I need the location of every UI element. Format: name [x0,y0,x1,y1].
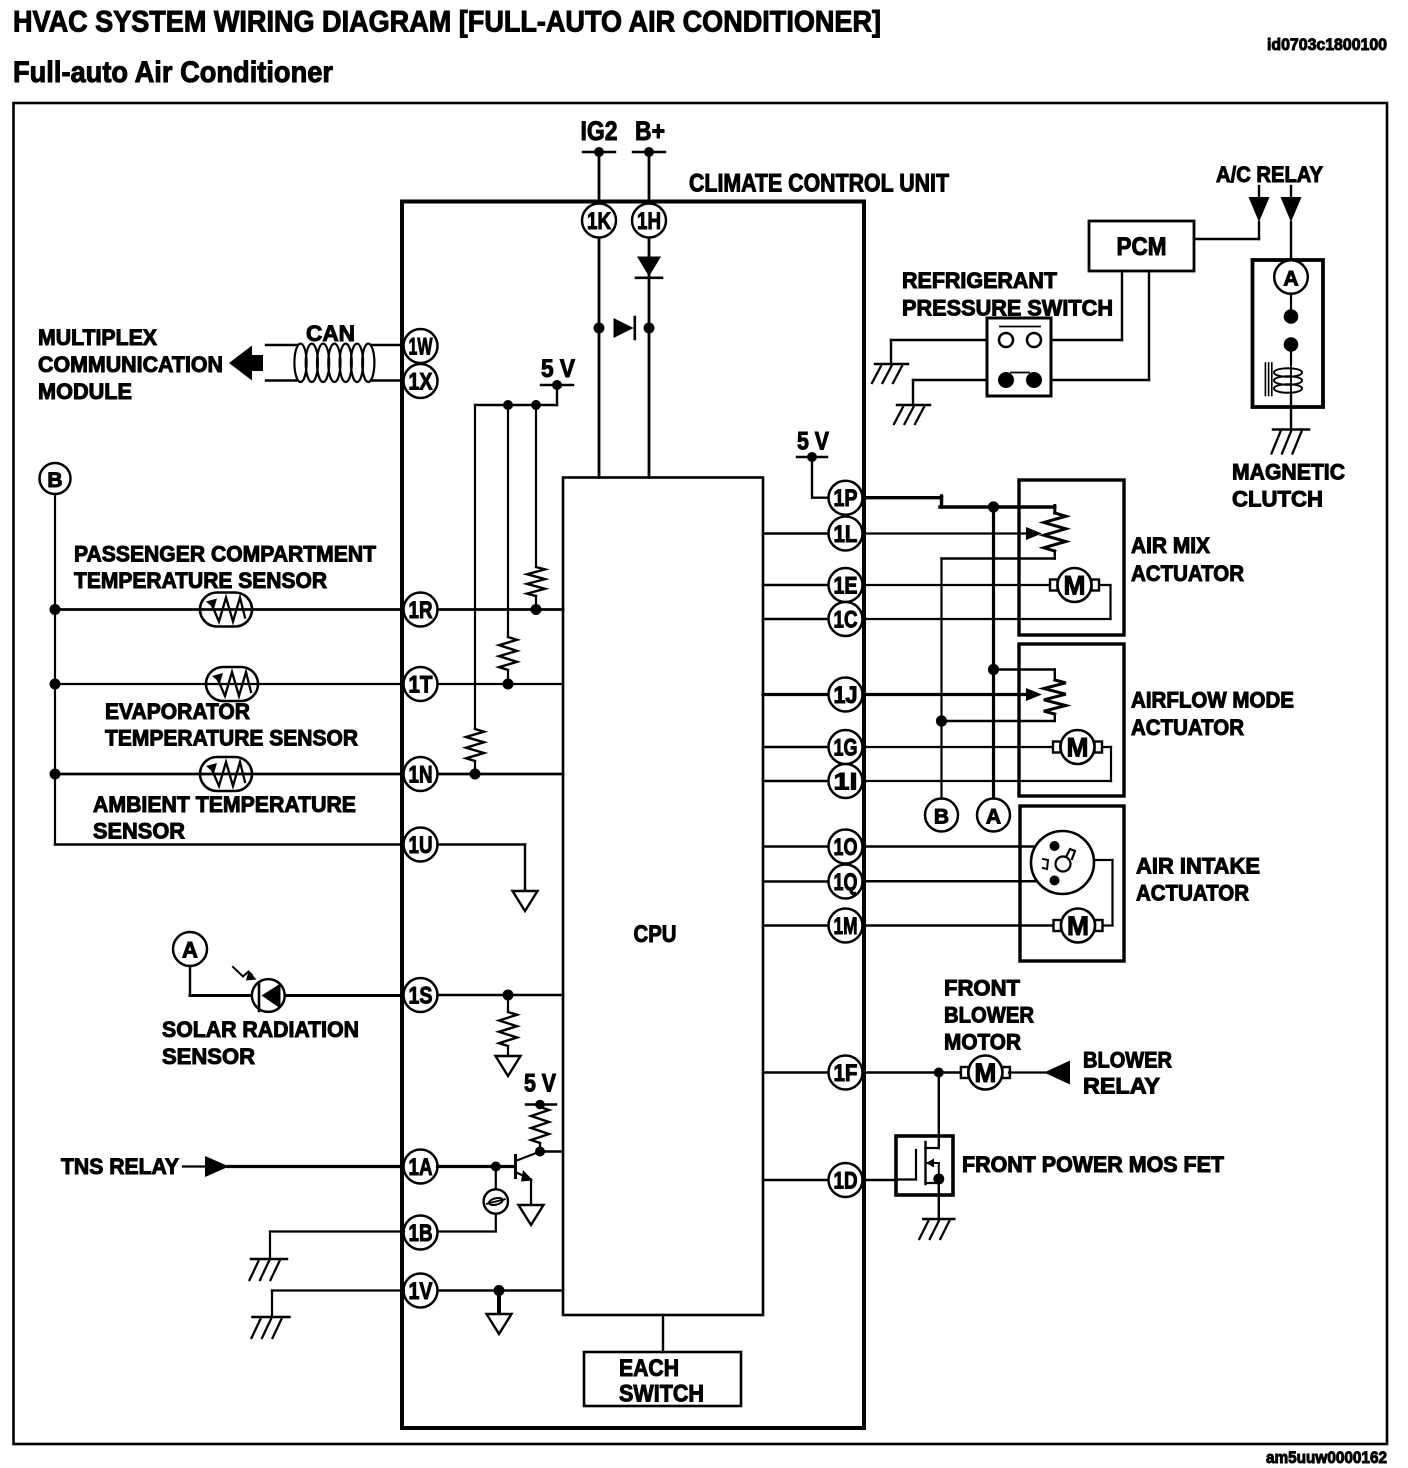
svg-text:5 V: 5 V [524,1070,556,1098]
svg-text:TNS RELAY: TNS RELAY [61,1154,179,1179]
svg-text:1X: 1X [409,369,433,396]
svg-text:B: B [47,469,62,492]
svg-text:CAN: CAN [306,321,355,346]
svg-text:M: M [1064,571,1086,601]
svg-text:HVAC SYSTEM WIRING DIAGRAM [FU: HVAC SYSTEM WIRING DIAGRAM [FULL-AUTO AI… [13,6,881,39]
svg-text:1E: 1E [834,573,858,600]
svg-text:1P: 1P [834,485,858,512]
svg-text:CLIMATE CONTROL UNIT: CLIMATE CONTROL UNIT [689,170,949,198]
svg-text:FRONT POWER MOS FET: FRONT POWER MOS FET [962,1152,1225,1177]
svg-text:CPU: CPU [634,921,677,948]
svg-text:Full-auto Air Conditioner: Full-auto Air Conditioner [13,56,333,89]
svg-text:B+: B+ [635,116,665,146]
svg-text:MAGNETIC: MAGNETIC [1232,460,1345,485]
svg-text:PRESSURE SWITCH: PRESSURE SWITCH [902,296,1113,321]
svg-text:TEMPERATURE SENSOR: TEMPERATURE SENSOR [105,726,358,751]
svg-text:EACH: EACH [619,1355,679,1382]
svg-text:5 V: 5 V [797,428,829,456]
svg-text:M: M [974,1058,996,1088]
svg-text:MOTOR: MOTOR [944,1030,1021,1055]
svg-text:1C: 1C [834,607,858,634]
svg-text:1F: 1F [834,1060,858,1087]
svg-text:1A: 1A [409,1154,433,1181]
svg-text:SWITCH: SWITCH [619,1381,704,1408]
svg-text:id0703c1800100: id0703c1800100 [1267,35,1387,54]
svg-text:1I: 1I [834,769,858,796]
svg-text:1K: 1K [587,208,612,235]
svg-text:1D: 1D [834,1168,858,1195]
svg-text:SENSOR: SENSOR [93,819,185,844]
svg-text:MODULE: MODULE [38,379,132,404]
svg-text:A/C RELAY: A/C RELAY [1216,162,1323,187]
svg-text:1T: 1T [409,672,433,699]
svg-text:AIRFLOW MODE: AIRFLOW MODE [1131,688,1294,713]
svg-text:1V: 1V [409,1278,433,1305]
svg-text:SOLAR RADIATION: SOLAR RADIATION [162,1017,359,1042]
svg-text:PCM: PCM [1117,233,1167,261]
svg-text:5 V: 5 V [541,355,575,383]
svg-text:AIR INTAKE: AIR INTAKE [1136,854,1260,879]
svg-text:PASSENGER COMPARTMENT: PASSENGER COMPARTMENT [74,542,377,567]
svg-text:SENSOR: SENSOR [162,1044,255,1069]
svg-text:1W: 1W [409,334,433,361]
svg-text:TEMPERATURE SENSOR: TEMPERATURE SENSOR [74,568,327,593]
svg-text:1M: 1M [834,913,858,940]
svg-text:BLOWER: BLOWER [944,1003,1034,1028]
svg-text:1J: 1J [834,682,858,709]
svg-text:M: M [1067,911,1089,941]
svg-text:IG2: IG2 [581,116,618,146]
svg-text:M: M [1067,733,1089,763]
svg-text:1G: 1G [834,735,858,762]
svg-text:REFRIGERANT: REFRIGERANT [902,268,1058,293]
svg-text:AMBIENT TEMPERATURE: AMBIENT TEMPERATURE [93,792,356,817]
svg-text:A: A [986,806,1001,829]
svg-text:EVAPORATOR: EVAPORATOR [105,699,250,724]
svg-text:1Q: 1Q [834,869,858,896]
svg-text:A: A [182,938,198,963]
svg-text:RELAY: RELAY [1083,1074,1160,1099]
svg-text:1O: 1O [834,834,858,861]
svg-text:CLUTCH: CLUTCH [1232,487,1323,512]
svg-text:1U: 1U [409,832,433,859]
svg-text:BLOWER: BLOWER [1083,1048,1172,1073]
svg-text:FRONT: FRONT [944,976,1021,1001]
svg-text:ACTUATOR: ACTUATOR [1131,715,1244,740]
svg-text:B: B [934,806,949,829]
svg-text:ACTUATOR: ACTUATOR [1136,881,1249,906]
svg-text:1B: 1B [409,1220,433,1247]
svg-text:1S: 1S [409,983,433,1010]
svg-text:A: A [1283,268,1298,291]
svg-text:1L: 1L [834,521,858,548]
svg-text:AIR MIX: AIR MIX [1131,533,1210,558]
svg-text:MULTIPLEX: MULTIPLEX [38,325,157,350]
svg-text:1H: 1H [637,208,661,235]
svg-text:am5uuw0000162: am5uuw0000162 [1266,1448,1387,1467]
svg-text:1R: 1R [409,597,433,624]
svg-text:1N: 1N [409,762,433,789]
svg-text:ACTUATOR: ACTUATOR [1131,561,1244,586]
svg-text:COMMUNICATION: COMMUNICATION [38,352,223,377]
